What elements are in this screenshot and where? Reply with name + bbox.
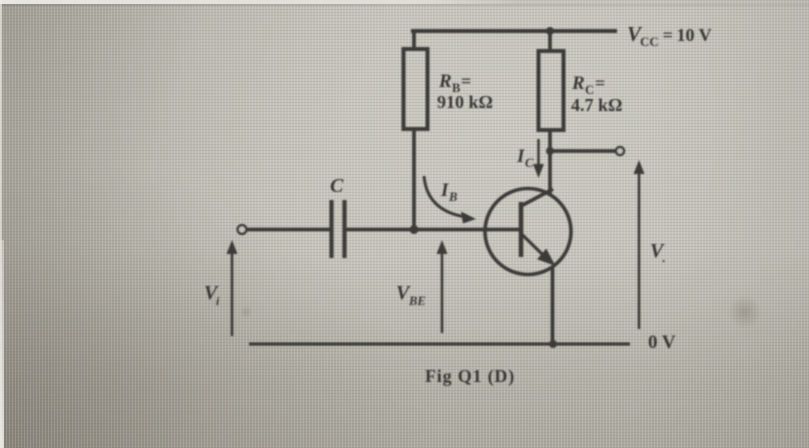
svg-text:CC: CC [640, 34, 659, 49]
svg-text:i: i [216, 294, 220, 308]
svg-text:I: I [440, 180, 449, 201]
svg-text:=: = [461, 71, 471, 91]
svg-text:BE: BE [408, 294, 426, 308]
svg-text:R: R [438, 71, 452, 92]
svg-text:4.7 kΩ: 4.7 kΩ [571, 95, 622, 115]
svg-text:C: C [525, 156, 534, 170]
svg-text:= 10 V: = 10 V [659, 25, 712, 45]
svg-text:R: R [571, 73, 585, 94]
svg-text:0 V: 0 V [648, 332, 676, 353]
svg-text:910 kΩ: 910 kΩ [437, 92, 493, 112]
svg-text:I: I [516, 146, 525, 167]
svg-text:=: = [595, 73, 605, 93]
svg-text:C: C [330, 175, 344, 197]
svg-text:.: . [662, 250, 665, 265]
svg-text:Fig Q1 (D): Fig Q1 (D) [425, 366, 515, 387]
svg-text:B: B [448, 190, 457, 204]
